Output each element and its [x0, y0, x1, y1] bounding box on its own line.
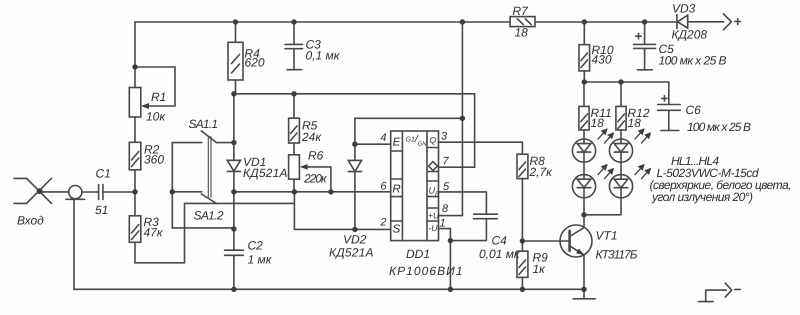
svg-text:220к: 220к [303, 172, 328, 186]
wire top supply rail left segment [135, 21, 510, 23]
node line A top [460, 19, 465, 24]
wire pin 7 [439, 166, 475, 168]
transistor VT1 collector [570, 228, 584, 237]
diode VD3 [676, 15, 678, 29]
node SA1 left [170, 189, 175, 194]
node C2 top [231, 226, 236, 231]
wire VD1 to row node [233, 171, 235, 250]
pin 7 open-collector diamond [429, 162, 438, 171]
wire input to socket [40, 191, 69, 193]
svg-text:51: 51 [95, 203, 108, 217]
svg-text:G1/GN: G1/GN [406, 134, 428, 148]
ground bar under C5 [638, 69, 653, 71]
wire pin 5 to C4 [439, 192, 487, 214]
svg-text:5: 5 [443, 181, 450, 193]
op-amp timer U1 DD1 box [391, 131, 439, 241]
node C5 top [642, 19, 647, 24]
DD1 internal labels [392, 135, 436, 236]
svg-text:S: S [393, 224, 401, 236]
VT1 emitter arrowhead [576, 249, 584, 256]
capacitor C5 polarized [634, 22, 656, 69]
LED HL4 [609, 175, 632, 198]
wire R6 bottom down to pin2 wire [293, 192, 295, 230]
wire pin 1 to common rail [439, 229, 451, 290]
capacitor C2 plates [225, 250, 244, 255]
ground bar under C6 [661, 130, 679, 132]
wire R5 top [293, 94, 295, 118]
svg-text:620: 620 [245, 56, 265, 70]
svg-text:1: 1 [440, 218, 446, 230]
transistor VT1 emitter [570, 246, 584, 289]
resistor R12 [616, 106, 626, 130]
connector socket circle [69, 186, 82, 199]
node R12 top [618, 79, 623, 84]
switch SA1.2 lever [201, 194, 216, 203]
svg-text:КД521А: КД521А [329, 246, 374, 260]
node C1 junction [132, 189, 137, 194]
svg-text:SA1.2: SA1.2 [194, 209, 224, 223]
wire pin 4 [355, 143, 391, 145]
R6 wiper arrowhead [300, 164, 308, 170]
wire trigger row to pin 6 [234, 191, 391, 193]
node R9 rail [520, 287, 525, 292]
node minus output [699, 290, 727, 302]
wire reset branch horizontal [355, 117, 463, 119]
LED emission arrows [598, 129, 650, 178]
node plus output sign [735, 19, 741, 25]
node LED cathode join [581, 212, 586, 217]
svg-text:КТ3117Б: КТ3117Б [596, 248, 638, 262]
LED HL1 [572, 139, 595, 162]
svg-text:6: 6 [380, 181, 387, 193]
wire SA1.2 row down to R3 loop [184, 203, 186, 262]
wire pin 3 output [439, 142, 523, 154]
wire supply line A to pin 8 [461, 22, 463, 216]
svg-text:2,7к: 2,7к [529, 165, 554, 179]
pin number labels [379, 131, 450, 230]
HL2 arrows [635, 129, 650, 143]
resistor R9 body [517, 251, 528, 277]
wire SA1 left vertical [171, 143, 173, 228]
C5 plus mark [636, 34, 641, 39]
arrowheads [141, 103, 584, 255]
svg-text:Q: Q [429, 135, 436, 145]
node R5 top [291, 91, 296, 96]
wire top supply rail middle segment [535, 21, 677, 23]
capacitor C1 plates [99, 185, 103, 200]
resistor R5 body [289, 118, 300, 143]
resistor R1 body (potentiometer) [129, 88, 141, 118]
HL1 arrows [598, 129, 613, 143]
node SA1.1 right [231, 140, 236, 145]
ground bar under C3 [287, 69, 302, 71]
svg-text:КР1006ВИ1: КР1006ВИ1 [389, 264, 463, 278]
wire pin 2 trigger [294, 228, 390, 230]
svg-text:8: 8 [442, 203, 449, 215]
wire R11 to HL1 [583, 130, 585, 139]
diode VD2 [348, 160, 361, 171]
svg-text:18: 18 [628, 116, 642, 130]
node VD1 cathode [231, 189, 236, 194]
resistor R7 [510, 17, 535, 27]
wire R1 wiper loop [135, 67, 175, 106]
svg-text:18: 18 [591, 116, 605, 130]
diode VD1 [227, 160, 240, 171]
svg-text:SA1.1: SA1.1 [189, 117, 219, 131]
node pin1 rail [448, 287, 453, 292]
svg-text:360: 360 [144, 153, 164, 167]
svg-text:VD3: VD3 [672, 2, 696, 16]
wire pin 8 [439, 215, 463, 217]
svg-text:E: E [393, 137, 401, 149]
resistor R10 [583, 22, 585, 45]
svg-text:C1: C1 [96, 167, 111, 181]
wire R9 to common rail [521, 277, 523, 289]
HL4 arrows [635, 165, 650, 179]
svg-text:Вход: Вход [17, 214, 44, 228]
node VD2 cathode [352, 227, 357, 232]
node VT1 base [520, 238, 525, 243]
wire C4 bottom [450, 219, 486, 241]
wire R4 bottom to rail2 [235, 80, 237, 94]
wire HL1 to HL3 [583, 162, 585, 174]
wire R2 to C1 node [134, 170, 136, 192]
resistor R2 body [129, 142, 141, 170]
transistor VT1 base bar [568, 231, 571, 251]
svg-text:DD1: DD1 [406, 247, 430, 261]
wire C1 to node [103, 191, 135, 193]
wire node to C2 top [172, 228, 234, 229]
wire LED feed line [584, 81, 669, 83]
wire top supply rail right segment [688, 21, 724, 23]
wire base of VT1 [522, 240, 569, 242]
node R10 top [582, 19, 587, 24]
wire LED cathodes junction [584, 198, 621, 228]
wire reset branch vertical to VD2 [354, 118, 356, 160]
svg-text:0,01 мк: 0,01 мк [479, 247, 521, 261]
resistor R6 body (trimmer) [289, 155, 300, 179]
switch SA1.2 left wire [172, 191, 202, 193]
node plus output arrow [723, 14, 731, 30]
wire HL2 to HL4 [620, 162, 622, 174]
switch SA1.1 lever [201, 131, 216, 143]
wire R8 to R9 [521, 179, 523, 252]
wire R6 bottom [293, 179, 295, 192]
svg-text:18: 18 [515, 26, 529, 40]
svg-text:1к: 1к [533, 262, 547, 276]
node rail2 left [231, 91, 236, 96]
wire C2 to common rail [233, 255, 235, 289]
node pin4 [352, 142, 357, 147]
wire R12 top [620, 82, 622, 106]
connector socket bar [66, 198, 85, 200]
svg-text:КД521А: КД521А [243, 166, 288, 180]
node emitter rail [581, 287, 586, 292]
node line A branch [460, 116, 465, 121]
svg-text:3: 3 [441, 131, 448, 143]
wire R4 node down to SA1.1 [233, 94, 235, 143]
svg-text:430: 430 [592, 53, 612, 67]
svg-text:+U: +U [428, 211, 440, 221]
svg-text:R1: R1 [151, 90, 166, 104]
node R11 top [582, 79, 587, 84]
R1 wiper arrowhead [141, 103, 149, 109]
svg-text:R: R [392, 184, 400, 196]
svg-text:угол излучения 20°): угол излучения 20°) [651, 190, 753, 204]
wire R1 to R2 [134, 117, 136, 142]
ground under VT1 emitter [573, 289, 595, 299]
svg-text:C6: C6 [686, 103, 702, 117]
capacitor C4 plates [474, 214, 498, 219]
resistor R8 body [517, 154, 528, 178]
node C3 top [291, 19, 296, 24]
connector X1 input fork symbol [14, 178, 52, 203]
wire VD2 to pin2 wire [354, 172, 356, 230]
wire SA1.1 to VD1 [233, 143, 235, 161]
resistor R4 body [235, 22, 237, 42]
capacitor C3 [285, 22, 303, 69]
svg-text:0,1 мк: 0,1 мк [306, 49, 341, 63]
svg-text:R6: R6 [308, 149, 324, 163]
svg-text:VT1: VT1 [596, 229, 618, 243]
wire R12 to HL2 [620, 130, 622, 139]
wire R6 wiper [306, 167, 331, 192]
svg-text:-U: -U [429, 223, 439, 233]
svg-text:VD2: VD2 [343, 233, 367, 247]
resistor R11 [579, 106, 589, 130]
C6 plus mark [662, 96, 667, 101]
wire R11 top [583, 82, 585, 106]
svg-text:100 мк х 25 В: 100 мк х 25 В [687, 120, 751, 134]
node R1 wiper [132, 64, 137, 69]
node C4 bottom [448, 238, 453, 243]
wire socket down to common rail [73, 199, 75, 289]
wire R5 to R6 [293, 143, 295, 155]
node input cross [37, 188, 43, 194]
capacitor C6 polarized [658, 82, 681, 130]
svg-text:100 мк х 25 В: 100 мк х 25 В [659, 54, 727, 68]
svg-text:C2: C2 [248, 239, 264, 253]
LED HL3 [572, 175, 595, 198]
svg-text:КД208: КД208 [672, 28, 708, 42]
wire rail2 down to pin7 [474, 94, 476, 167]
node R6 wiper [328, 189, 333, 194]
svg-text:7: 7 [443, 156, 450, 168]
LED HL2 [609, 139, 632, 162]
HL3 arrows [598, 165, 613, 179]
node R4 top [233, 19, 238, 24]
switch SA1 mechanical link [208, 137, 211, 198]
svg-text:47к: 47к [144, 226, 164, 240]
svg-text:R7: R7 [513, 4, 530, 18]
node R6 bottom [292, 189, 297, 194]
wire socket to C1 [82, 191, 99, 193]
resistor R3 body [129, 216, 141, 243]
svg-text:10к: 10к [146, 110, 166, 124]
wire bottom common rail [74, 288, 584, 290]
switch SA1.1 left wire [172, 142, 202, 144]
svg-text:2: 2 [379, 217, 386, 229]
svg-text:C4: C4 [492, 234, 508, 248]
wire left vertical from rail to R1 [134, 22, 136, 88]
transistor Q1 VT1 circle [560, 225, 592, 257]
svg-text:1 мк: 1 мк [248, 253, 273, 267]
wire SA1.2 row to R6 bottom [185, 202, 295, 204]
switch SA1.1 right wire [216, 142, 234, 144]
svg-text:24к: 24к [301, 130, 322, 144]
node C2 bottom [231, 287, 236, 292]
wire R3 bottom loop [135, 242, 185, 262]
wire rail2 horizontal [234, 93, 475, 95]
wire C1 node to R3 [134, 192, 136, 216]
svg-text:4: 4 [380, 132, 386, 144]
